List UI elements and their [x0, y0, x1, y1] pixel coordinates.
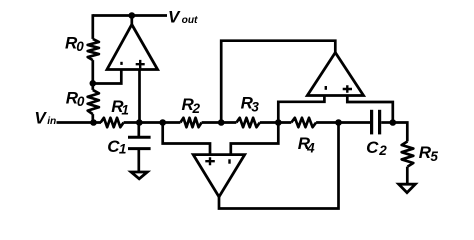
node dot C2/R5	[390, 119, 397, 126]
svg-text:1: 1	[121, 103, 129, 118]
wire op-amp U1 minus feedback	[93, 69, 122, 84]
op-amp U1 triangle	[107, 25, 158, 70]
wire op-amp U3 minus input	[278, 96, 324, 123]
resistor R2 zigzag	[180, 118, 201, 127]
svg-text:2: 2	[378, 143, 387, 158]
capacitor C1 top stub	[137, 123, 140, 137]
wire R5 to ground	[406, 167, 409, 185]
op-amp U2 plus mark	[205, 157, 215, 165]
op-amp U1 apex stub	[130, 16, 133, 26]
node dot R1/C1	[136, 119, 143, 126]
svg-text:1: 1	[119, 142, 127, 157]
resistor R3 zigzag	[236, 118, 259, 127]
svg-text:4: 4	[306, 140, 315, 155]
svg-text:0: 0	[76, 39, 84, 54]
svg-text:2: 2	[192, 101, 201, 116]
wire between R0s	[91, 60, 94, 90]
op-amp U3 triangle	[307, 53, 363, 96]
op-amp U1 minus mark	[120, 62, 122, 65]
node dot R2/R3	[218, 119, 225, 126]
wire top rectangle to op-amp U3	[221, 41, 335, 123]
svg-text:C: C	[366, 138, 379, 157]
wire node to R5	[393, 123, 408, 142]
node dot R0/R0	[90, 80, 97, 87]
svg-text:0: 0	[77, 94, 85, 109]
op-amp U1 plus mark	[136, 60, 145, 69]
wire row R1 to R2	[124, 121, 181, 124]
node dot R4/loop	[335, 119, 342, 126]
wire row R4 to C2	[316, 121, 370, 124]
op-amp U2 minus mark	[228, 159, 230, 163]
capacitor C1 bottom stub	[137, 150, 140, 172]
wire top output	[93, 14, 167, 17]
wire Vin lead	[57, 121, 102, 124]
wire R0 to Vin row	[91, 114, 94, 122]
svg-text:V: V	[34, 109, 47, 128]
node dot Vin/R0	[90, 119, 97, 126]
wire op-amp U2 output loop	[219, 123, 339, 209]
wire op-amp U2 plus input	[163, 123, 210, 155]
wire C2 to node	[381, 121, 393, 124]
wire row R3 to R4	[260, 121, 292, 124]
node dot R3/R4	[275, 119, 282, 126]
svg-text:out: out	[182, 15, 198, 26]
node dot U2 plus tap	[159, 119, 166, 126]
op-amp U2 triangle	[193, 155, 245, 197]
capacitor C2 plates	[370, 110, 373, 135]
wire left vertical top segment	[91, 14, 94, 39]
node dot Vout	[129, 12, 136, 19]
svg-text:5: 5	[430, 149, 438, 164]
capacitor C1 plates	[128, 136, 151, 139]
svg-text:V: V	[168, 7, 181, 26]
svg-text:in: in	[47, 116, 56, 127]
resistor R5 zigzag	[402, 141, 414, 166]
resistor R0 lower zigzag	[88, 90, 99, 114]
svg-text:3: 3	[251, 100, 259, 115]
resistor R0 upper zigzag	[88, 39, 99, 60]
resistor R1 zigzag	[101, 118, 124, 127]
op-amp U3 plus mark	[343, 85, 352, 93]
ground under R5	[399, 184, 416, 192]
ground under C1	[131, 172, 147, 179]
op-amp U3 minus mark	[325, 86, 327, 90]
resistor R4 zigzag	[291, 118, 316, 127]
wire row R2 to R3	[202, 121, 237, 124]
wire op-amp U2 minus input	[231, 123, 278, 155]
wire op-amp U3 plus input	[347, 96, 393, 123]
wire op-amp U1 plus input	[138, 69, 141, 123]
